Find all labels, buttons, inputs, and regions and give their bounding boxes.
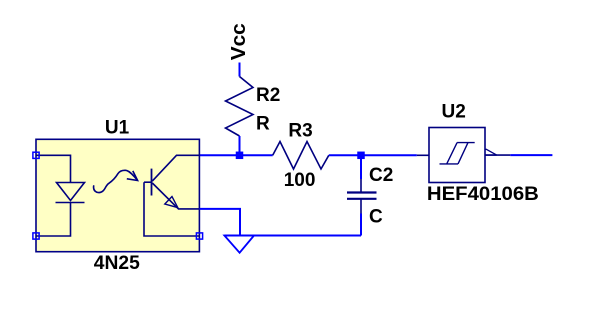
ground symbol — [224, 236, 254, 253]
resistor R2 — [226, 77, 254, 137]
svg-text:Vcc: Vcc — [228, 23, 250, 60]
transistor emitter — [152, 183, 199, 209]
wire emitter to ground — [200, 209, 241, 236]
LED cathode bar — [56, 202, 85, 204]
wire U2 output — [510, 154, 552, 156]
wire R3 to node2 and on to U2 — [329, 154, 417, 156]
wire bottom rail — [224, 235, 361, 237]
transistor base bar — [151, 169, 153, 196]
svg-text:R3: R3 — [288, 120, 312, 141]
svg-text:C: C — [369, 206, 383, 227]
U2 input pin stub — [417, 154, 429, 156]
pin square pin1 — [33, 152, 39, 158]
pin square pin2 — [33, 233, 39, 239]
transistor base lead — [144, 181, 152, 183]
wire U1 collector to R3 — [200, 154, 273, 156]
opto coupling arrow — [94, 170, 138, 192]
junction node2 — [357, 152, 365, 160]
output wedge — [486, 149, 497, 155]
svg-text:R: R — [256, 114, 270, 135]
wire Vcc stub — [239, 63, 241, 77]
pin square pin6 — [196, 233, 202, 239]
arrow barbs — [127, 171, 138, 181]
svg-text:U2: U2 — [442, 102, 466, 123]
optocoupler U1 box — [36, 139, 199, 251]
transistor collector — [152, 155, 199, 181]
LED diode triangle — [57, 183, 85, 201]
resistor R3 — [273, 142, 329, 170]
svg-text:4N25: 4N25 — [94, 253, 140, 274]
wire node2 to C2 top — [360, 155, 362, 179]
wire R2 to node1 — [239, 136, 241, 155]
C2 top pin stub — [360, 179, 362, 193]
op-amp U2 box (schmitt inverter HEF40106B) — [429, 128, 485, 183]
svg-text:R2: R2 — [256, 85, 280, 106]
svg-text:100: 100 — [284, 170, 316, 191]
hysteresis glyph — [440, 143, 475, 164]
wire pin1 to LED anode — [36, 155, 71, 182]
svg-text:U1: U1 — [105, 117, 130, 138]
capacitor C2 plates — [347, 191, 377, 193]
junction node1 — [236, 152, 244, 160]
wire LED cathode to pin2 — [36, 203, 71, 237]
U2 output pin stub — [485, 154, 510, 156]
wire C2 bottom to rail — [360, 214, 362, 236]
svg-text:C2: C2 — [369, 165, 393, 186]
C2 bottom pin stub — [360, 199, 362, 214]
emitter arrowhead — [165, 197, 178, 208]
svg-text:HEF40106B: HEF40106B — [427, 184, 539, 205]
base wire to pin6 — [144, 182, 200, 236]
